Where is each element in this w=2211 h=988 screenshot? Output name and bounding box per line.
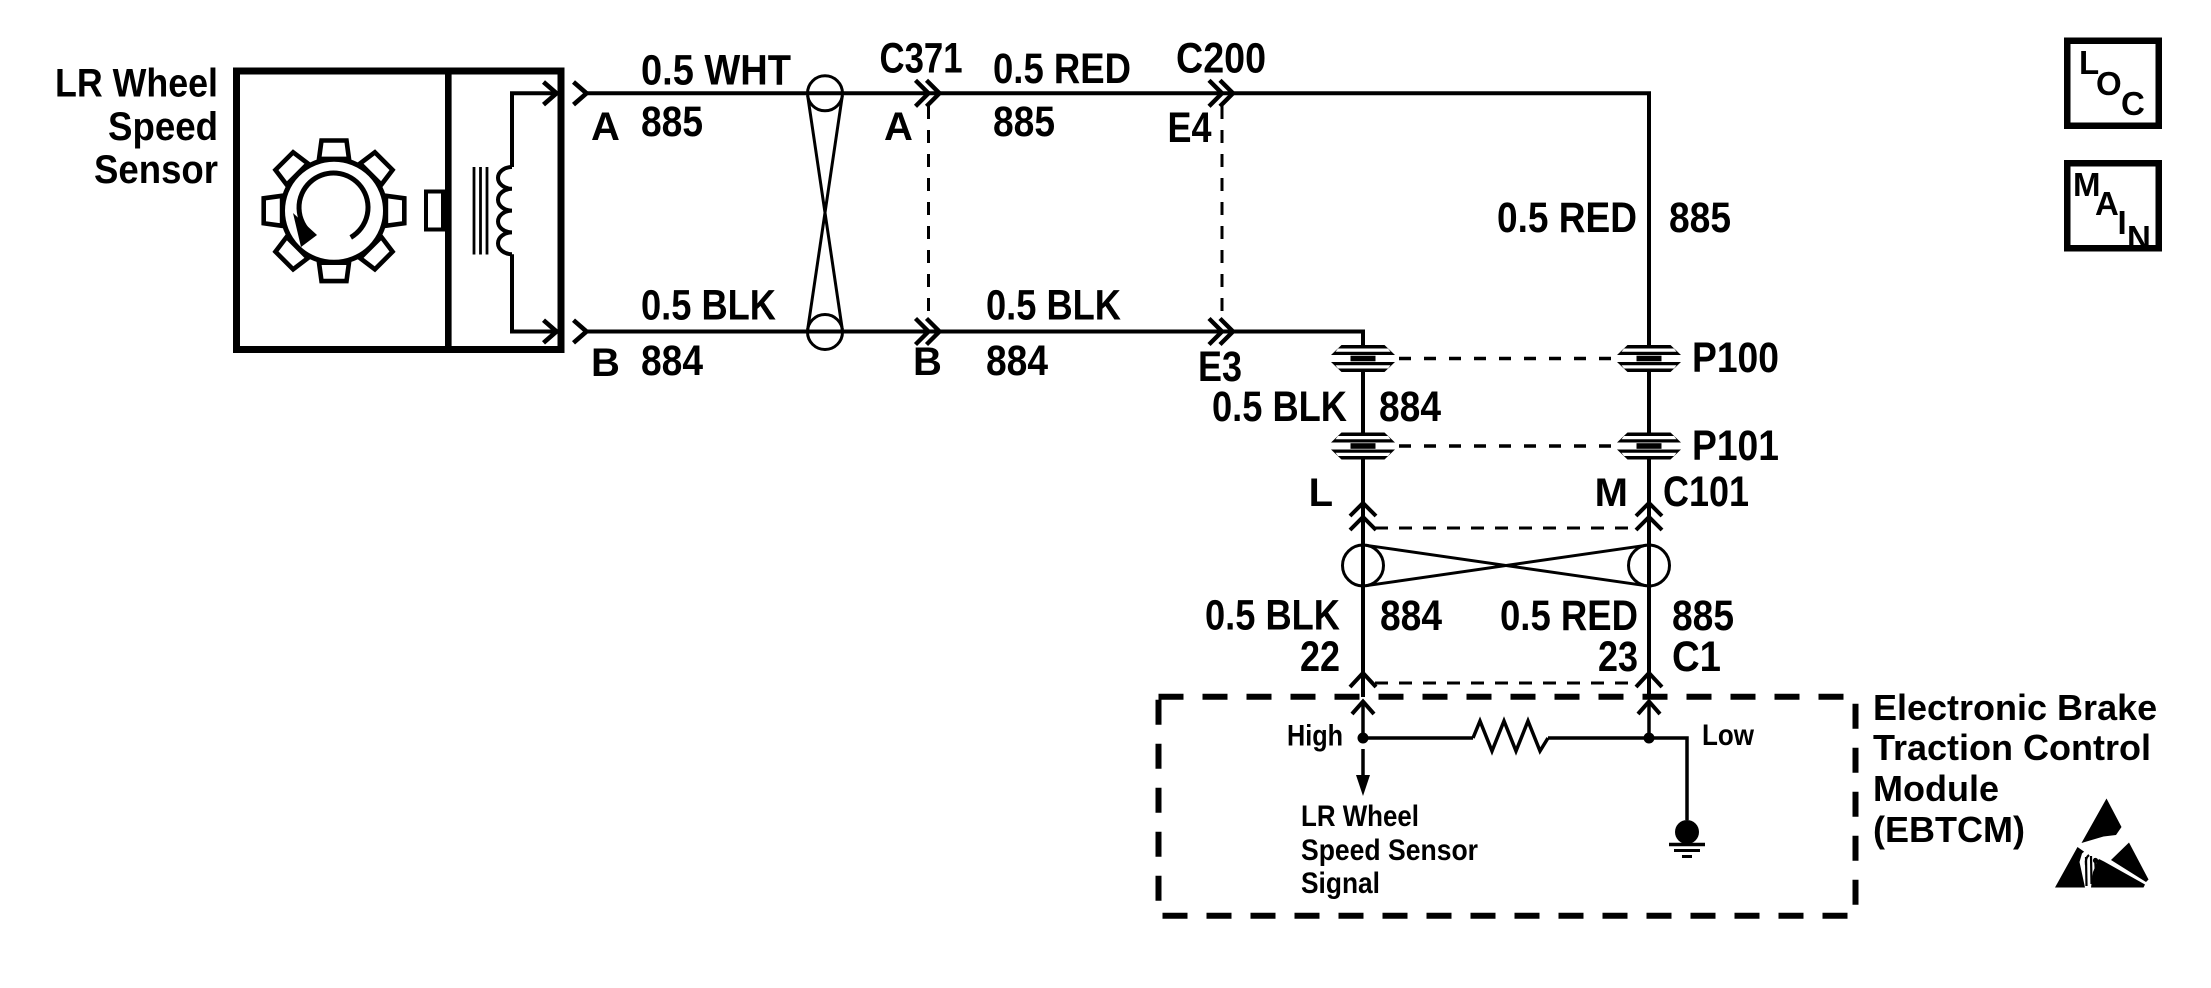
grommet P101 pair xyxy=(1331,422,1779,470)
labels before C1 xyxy=(1205,592,1734,682)
svg-text:(EBTCM): (EBTCM) xyxy=(1873,809,2025,850)
svg-text:23: 23 xyxy=(1598,633,1638,681)
svg-text:0.5 BLK: 0.5 BLK xyxy=(986,282,1121,330)
label wire A xyxy=(591,47,791,150)
label wire 0.5 BLK 884 xyxy=(986,282,1121,386)
svg-text:0.5 BLK: 0.5 BLK xyxy=(641,282,776,330)
label Electronic Brake Traction Control Module (EBTCM) xyxy=(1873,687,2157,850)
resistor xyxy=(1473,721,1548,751)
svg-text:Traction Control: Traction Control xyxy=(1873,727,2151,768)
svg-text:885: 885 xyxy=(641,98,703,146)
svg-text:885: 885 xyxy=(993,98,1055,146)
ESD warning symbol xyxy=(2055,799,2149,888)
twisted pair symbol vertical xyxy=(808,76,843,350)
wire from resistor xyxy=(1548,736,1649,740)
label wire 0.5 RED 885 xyxy=(993,45,1131,146)
svg-text:C371: C371 xyxy=(880,35,963,83)
wire to resistor xyxy=(1363,736,1473,740)
svg-text:0.5 WHT: 0.5 WHT xyxy=(641,47,791,95)
EBTCM entry arrow right xyxy=(1638,702,1660,739)
wire 885 vertical drop xyxy=(1647,93,1651,346)
svg-text:Low: Low xyxy=(1702,719,1755,752)
pole piece xyxy=(426,192,443,230)
sensor coil winding xyxy=(498,167,512,254)
terminal B chevron xyxy=(574,320,587,343)
svg-text:High: High xyxy=(1287,720,1343,753)
svg-text:885: 885 xyxy=(1669,194,1731,242)
label 0.5 RED 885 vertical xyxy=(1497,194,1731,242)
svg-text:Sensor: Sensor xyxy=(94,148,218,192)
label 0.5 BLK 884 xyxy=(1212,383,1441,431)
label wire B xyxy=(591,282,776,386)
svg-text:A: A xyxy=(591,105,620,149)
connector C101 xyxy=(1309,468,1749,530)
svg-text:C101: C101 xyxy=(1663,468,1749,516)
svg-text:P101: P101 xyxy=(1692,422,1779,470)
svg-text:LR Wheel: LR Wheel xyxy=(55,62,218,106)
LOC reference box xyxy=(2067,41,2159,126)
signal down arrow xyxy=(1356,749,1370,796)
svg-text:Electronic Brake: Electronic Brake xyxy=(1873,687,2157,728)
svg-text:C200: C200 xyxy=(1176,35,1266,83)
grommet P100 pair xyxy=(1331,334,1779,382)
label LR Wheel Speed Sensor xyxy=(55,62,218,193)
EBTCM entry arrow left xyxy=(1352,702,1374,739)
EBTCM module dashed box xyxy=(1159,697,1856,916)
svg-text:E4: E4 xyxy=(1168,104,1212,152)
svg-text:0.5 RED: 0.5 RED xyxy=(993,45,1131,93)
sensor coil core xyxy=(474,167,487,255)
wire to ground xyxy=(1649,738,1687,820)
wire A: 0.5 WHT 885 xyxy=(587,91,1652,95)
MAIN reference box xyxy=(2067,163,2159,256)
wire B: 0.5 BLK 884 xyxy=(587,330,1366,334)
coil lead wire top with arrow xyxy=(512,82,557,167)
svg-text:884: 884 xyxy=(986,337,1048,385)
svg-text:Speed: Speed xyxy=(108,105,218,149)
node Low xyxy=(1644,719,1755,752)
wire 884 corner drop xyxy=(1361,332,1365,348)
svg-text:LR Wheel: LR Wheel xyxy=(1301,800,1419,833)
connector C371 xyxy=(880,35,963,385)
svg-text:M: M xyxy=(1595,471,1628,515)
wire between grommets left xyxy=(1361,372,1365,433)
svg-text:22: 22 xyxy=(1300,633,1340,681)
svg-text:P100: P100 xyxy=(1692,334,1779,382)
twisted pair symbol horizontal xyxy=(1343,545,1670,586)
svg-text:884: 884 xyxy=(641,337,703,385)
wire left chain down xyxy=(1361,459,1365,697)
svg-text:I: I xyxy=(2118,204,2127,241)
svg-text:B: B xyxy=(591,341,620,385)
svg-text:Signal: Signal xyxy=(1301,867,1380,900)
connector C1 xyxy=(1350,673,1662,687)
svg-text:C: C xyxy=(2121,85,2145,122)
ground xyxy=(1669,820,1705,857)
wire between grommets right xyxy=(1647,372,1651,433)
svg-text:C1: C1 xyxy=(1672,633,1721,681)
connector C200 xyxy=(1168,35,1267,392)
svg-text:Speed Sensor: Speed Sensor xyxy=(1301,834,1478,867)
coil lead wire bottom with arrow xyxy=(512,254,557,343)
tone wheel xyxy=(264,141,405,282)
wire right chain down xyxy=(1647,459,1651,697)
svg-text:884: 884 xyxy=(1380,592,1442,640)
svg-text:O: O xyxy=(2096,65,2122,102)
svg-text:A: A xyxy=(2095,185,2119,222)
svg-text:L: L xyxy=(1309,471,1333,515)
svg-text:A: A xyxy=(884,105,913,149)
svg-text:884: 884 xyxy=(1379,383,1441,431)
svg-text:0.5 RED: 0.5 RED xyxy=(1497,194,1637,242)
svg-text:B: B xyxy=(913,340,942,384)
label LR Wheel Speed Sensor Signal xyxy=(1301,800,1478,900)
LR wheel speed sensor box xyxy=(237,68,562,354)
svg-text:0.5 BLK: 0.5 BLK xyxy=(1212,383,1347,431)
node High xyxy=(1287,720,1369,753)
svg-text:N: N xyxy=(2127,219,2151,256)
svg-text:Module: Module xyxy=(1873,768,1999,809)
terminal A chevron xyxy=(574,82,587,105)
rotation arrow xyxy=(293,173,368,247)
